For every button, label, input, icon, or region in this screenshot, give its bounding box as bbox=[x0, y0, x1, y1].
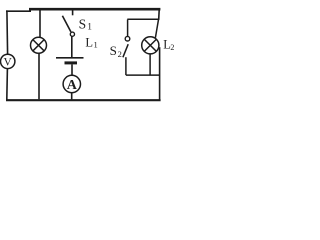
switch S2 blade bbox=[123, 44, 128, 57]
svg-text:S: S bbox=[110, 43, 117, 58]
wire S2 lower drop bbox=[125, 57, 127, 75]
lamp (left, unlabeled) circle bbox=[31, 37, 47, 53]
lamp L2 bottom stub bbox=[149, 54, 151, 75]
wire S2 upper drop bbox=[127, 20, 129, 37]
wire left border upper bbox=[6, 10, 9, 54]
wire top-right border drop (slanted) bbox=[158, 10, 161, 20]
svg-text:S: S bbox=[79, 17, 87, 32]
wire lamp1 top stub bbox=[39, 10, 41, 38]
svg-text:A: A bbox=[67, 78, 78, 93]
lamp L2 X strokes bbox=[144, 39, 156, 51]
wire battery to ammeter bbox=[71, 65, 73, 76]
lamp (left) X strokes bbox=[33, 40, 44, 51]
voltmeter V bbox=[1, 54, 15, 68]
battery short thick plate bbox=[65, 61, 78, 64]
wire lamp1 bottom stub bbox=[38, 53, 40, 99]
wire top rail left thin segment bbox=[6, 10, 31, 12]
wire jog at y=75 joining branches bbox=[126, 74, 160, 76]
svg-text:L: L bbox=[85, 35, 93, 49]
wire S1 to battery bbox=[71, 36, 73, 57]
wire top rail main thick segment bbox=[29, 8, 160, 11]
battery long plate bbox=[56, 57, 84, 59]
wire left border lower bbox=[6, 69, 9, 100]
svg-text:V: V bbox=[4, 56, 13, 68]
wire right border lower bbox=[159, 47, 161, 100]
switch S2 contact circle bbox=[125, 36, 130, 41]
lamp L2 circle bbox=[142, 37, 159, 54]
switch S1 contact circle bbox=[70, 32, 74, 36]
switch S1 blade bbox=[62, 16, 71, 32]
wire ammeter to bottom rail bbox=[71, 93, 73, 100]
wire bottom rail bbox=[6, 99, 161, 101]
wire L2 upper slant stub from jog bbox=[155, 20, 158, 38]
wire jog at y=19 joining S2 branch bbox=[127, 18, 159, 20]
ammeter A bbox=[63, 75, 80, 92]
svg-text:1: 1 bbox=[94, 40, 98, 50]
wire S1 stub from rail bbox=[72, 10, 74, 15]
svg-text:2: 2 bbox=[170, 43, 174, 52]
svg-text:1: 1 bbox=[87, 23, 92, 33]
svg-text:2: 2 bbox=[118, 49, 122, 59]
